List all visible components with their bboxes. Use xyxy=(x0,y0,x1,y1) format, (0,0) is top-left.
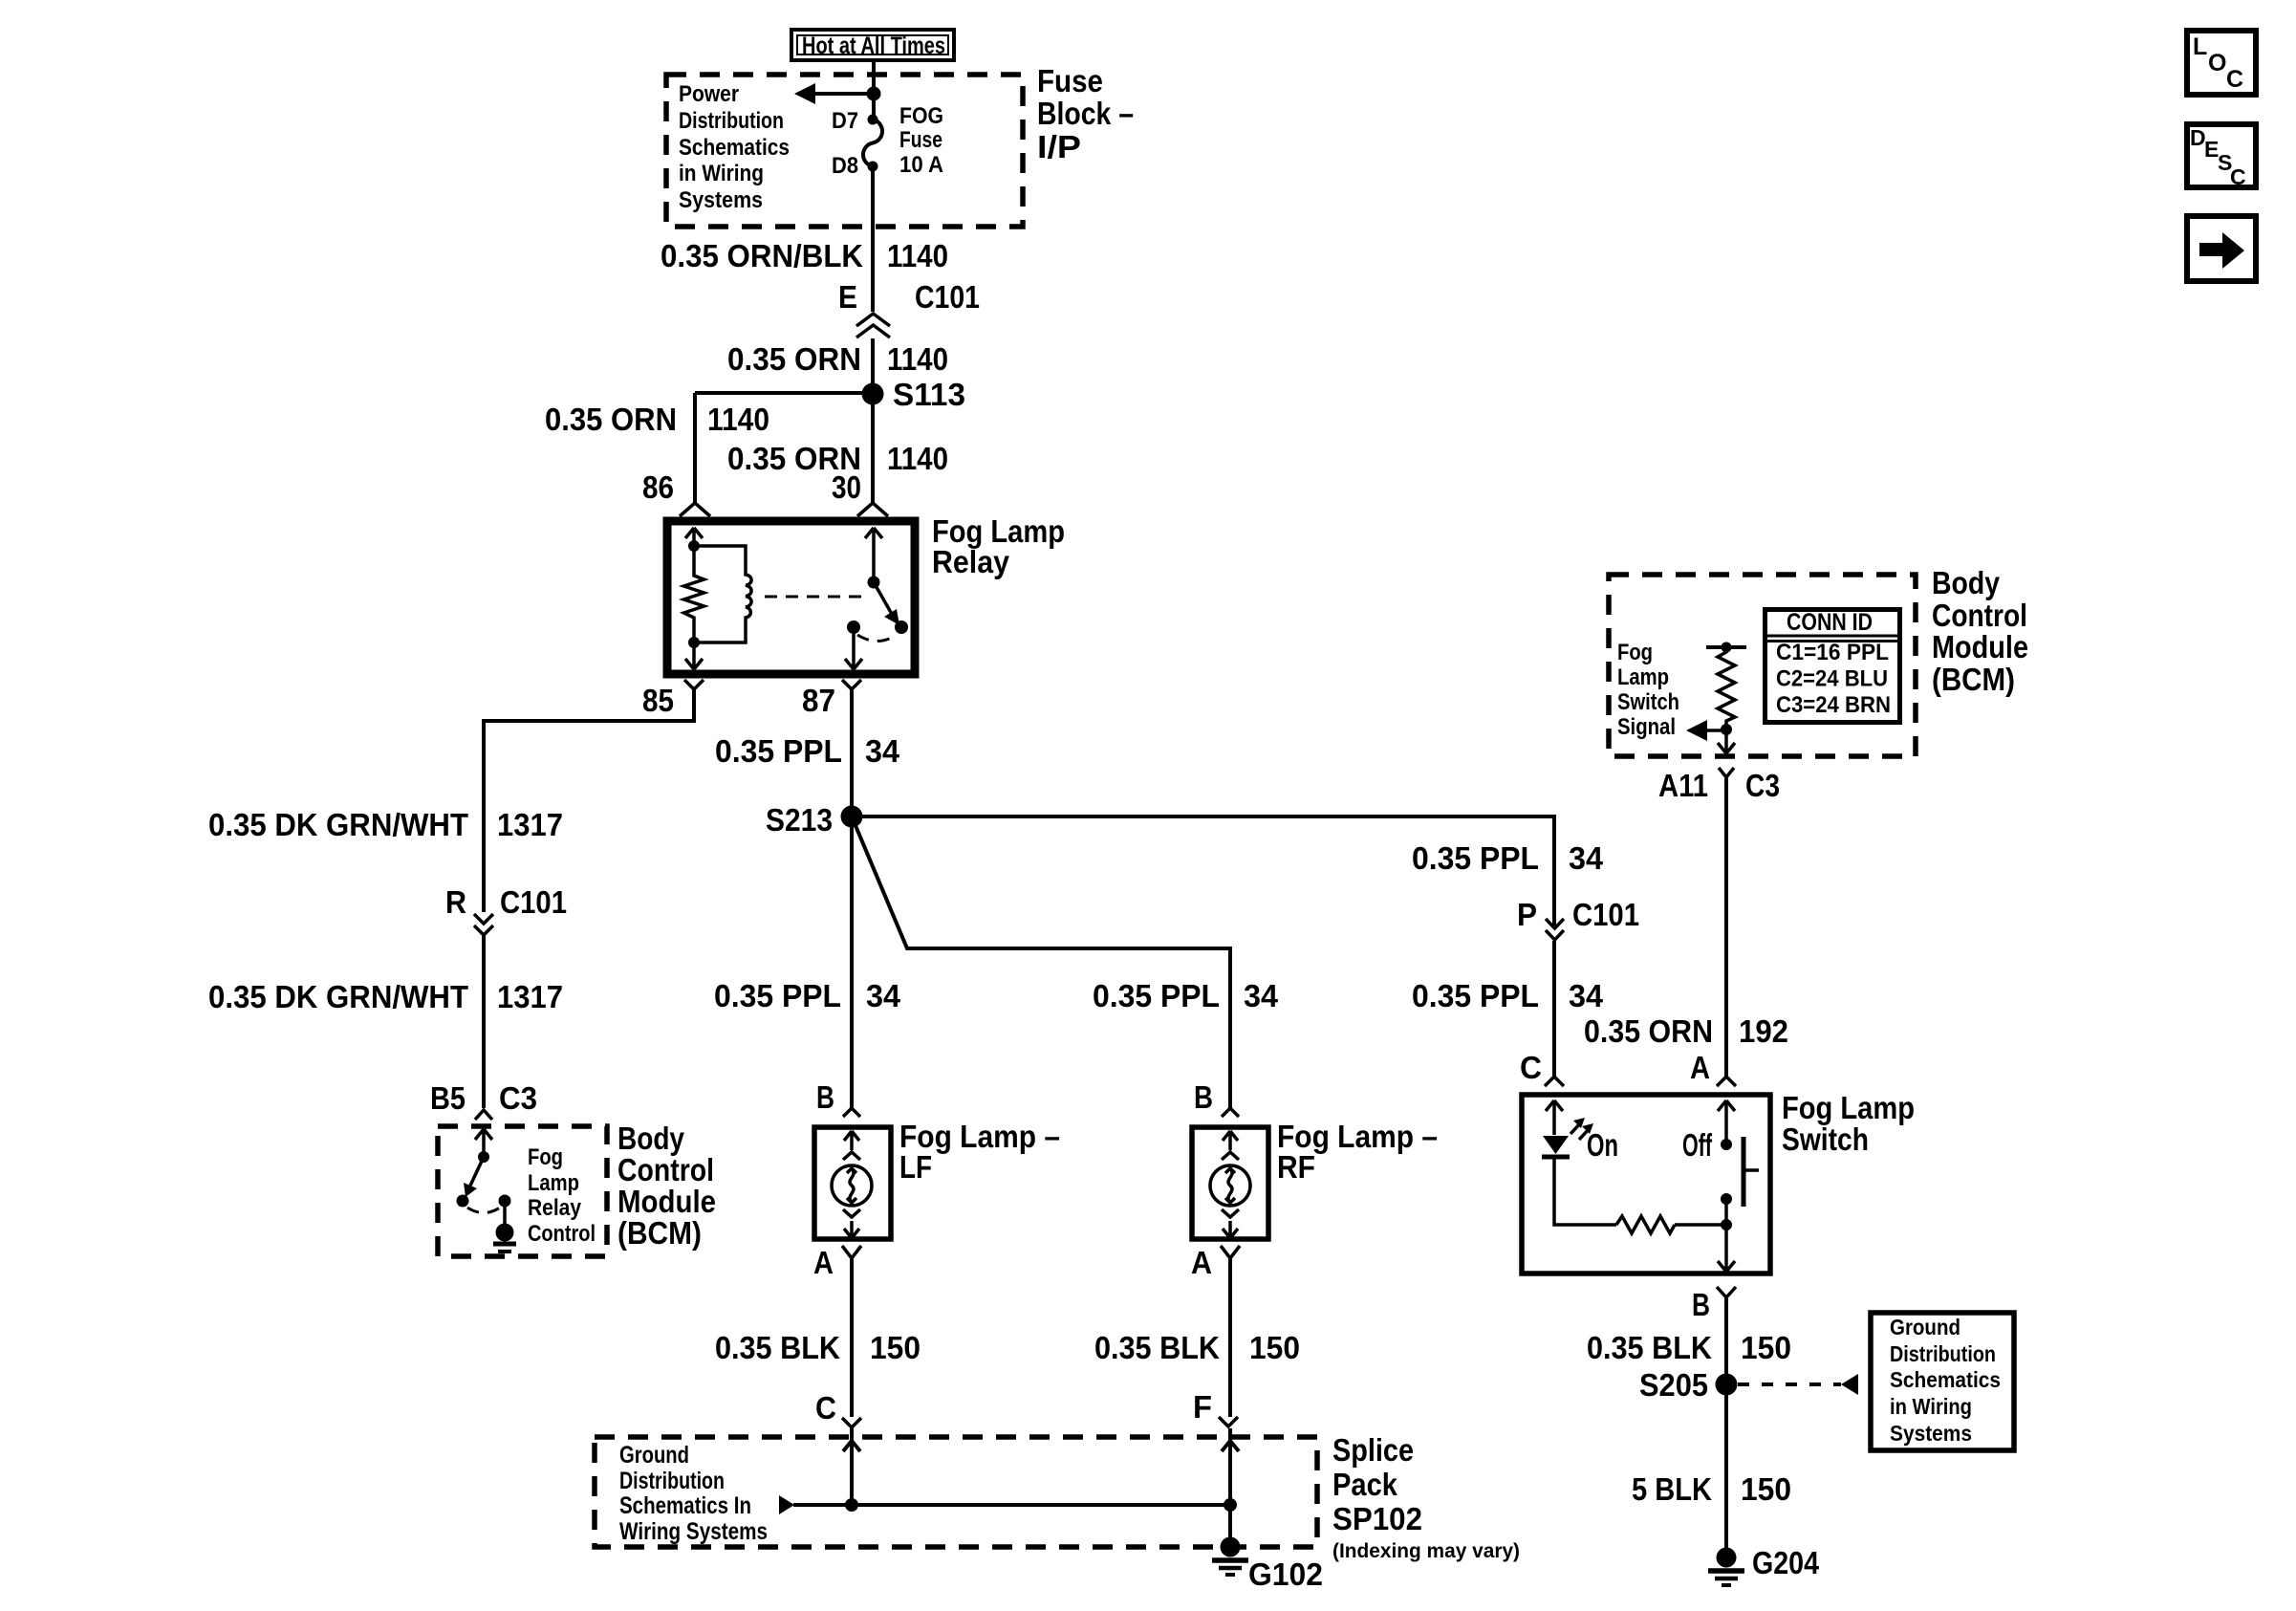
connector C101 double chevron at P xyxy=(1546,919,1564,928)
svg-text:B: B xyxy=(1194,1079,1213,1115)
svg-text:34: 34 xyxy=(1569,840,1604,876)
svg-text:in Wiring: in Wiring xyxy=(679,161,764,186)
svg-text:0.35 PPL: 0.35 PPL xyxy=(715,733,842,769)
arrow to power distribution schematics xyxy=(794,83,815,104)
svg-text:1317: 1317 xyxy=(497,979,563,1014)
svg-text:C3=24 BRN: C3=24 BRN xyxy=(1776,692,1891,718)
svg-text:(Indexing may vary): (Indexing may vary) xyxy=(1332,1540,1520,1562)
svg-text:0.35 BLK: 0.35 BLK xyxy=(1587,1330,1712,1365)
svg-text:Wiring Systems: Wiring Systems xyxy=(619,1518,768,1545)
relay switch movable arm xyxy=(874,582,893,616)
component name Body Control Module (BCM) left xyxy=(617,1121,716,1251)
svg-text:Fog Lamp: Fog Lamp xyxy=(1782,1090,1915,1125)
splice node at C xyxy=(845,1498,858,1512)
svg-text:Fog: Fog xyxy=(528,1144,563,1170)
reference box text Ground Distribution Schematics in Wiring Systems xyxy=(1890,1315,2001,1446)
svg-text:Splice: Splice xyxy=(1332,1432,1414,1468)
svg-text:Control: Control xyxy=(1932,598,2027,633)
wire RF lamp to splice pack pin F xyxy=(1228,1259,1232,1417)
RF lamp internal chevron top xyxy=(1222,1152,1239,1160)
svg-text:Fog: Fog xyxy=(1617,640,1653,665)
svg-text:150: 150 xyxy=(1741,1330,1791,1365)
connector chevron pin 30 xyxy=(857,503,888,516)
svg-text:A: A xyxy=(1690,1050,1710,1085)
svg-text:S113: S113 xyxy=(893,377,965,412)
wire S213 diagonal branch to RF lamp xyxy=(852,816,1230,1108)
svg-text:1317: 1317 xyxy=(497,807,563,842)
relay switch pivot node xyxy=(868,577,880,589)
fuse block note text Power Distribution Schematics in Wiring Systems xyxy=(679,81,790,213)
svg-text:192: 192 xyxy=(1739,1013,1788,1049)
wire connector E to splice S113 xyxy=(871,338,875,386)
svg-text:P: P xyxy=(1517,897,1537,932)
connector chevron pin 86 xyxy=(680,503,710,516)
pin function label Fog Lamp Relay Control xyxy=(528,1144,596,1247)
svg-text:I/P: I/P xyxy=(1037,129,1081,164)
CONN ID table xyxy=(1765,609,1900,723)
svg-text:SP102: SP102 xyxy=(1332,1501,1422,1536)
svg-text:Control: Control xyxy=(528,1221,596,1247)
svg-text:1140: 1140 xyxy=(887,441,948,476)
switch internal entry arrow at A xyxy=(1718,1100,1735,1144)
svg-text:(BCM): (BCM) xyxy=(617,1215,702,1251)
wire from Hot at All Times into fuse block xyxy=(872,60,876,120)
svg-text:C: C xyxy=(2226,66,2243,93)
svg-text:S213: S213 xyxy=(766,802,833,838)
svg-text:F: F xyxy=(1193,1389,1212,1425)
switch internal entry arrow at C xyxy=(1546,1100,1563,1135)
reference arrow at ground distribution box xyxy=(1841,1374,1858,1395)
fuse value label FOG Fuse 10 A xyxy=(899,103,943,178)
svg-text:0.35 PPL: 0.35 PPL xyxy=(714,978,841,1013)
RF lamp internal chevron bottom xyxy=(1222,1209,1239,1217)
fuse terminal D8 xyxy=(868,162,878,172)
svg-text:Fuse: Fuse xyxy=(899,127,942,153)
ground G204 xyxy=(1708,1548,1744,1586)
svg-text:Pack: Pack xyxy=(1332,1467,1398,1502)
internal ground symbol xyxy=(496,1224,514,1242)
pin function label Fog Lamp Switch Signal xyxy=(1617,640,1679,740)
svg-text:Lamp: Lamp xyxy=(1617,664,1669,690)
connector chevron C splice xyxy=(842,1418,861,1427)
svg-text:C3: C3 xyxy=(1745,768,1780,803)
svg-text:34: 34 xyxy=(866,978,901,1013)
switch lower contact node xyxy=(1721,1193,1732,1205)
svg-text:0.35 DK GRN/WHT: 0.35 DK GRN/WHT xyxy=(208,807,468,842)
switch internal resistor xyxy=(1616,1216,1675,1233)
svg-text:Relay: Relay xyxy=(528,1195,582,1221)
wire connector R to BCM pin B5 xyxy=(482,936,486,1108)
body control module dashed box right xyxy=(1609,575,1916,756)
svg-text:Schematics In: Schematics In xyxy=(619,1492,751,1519)
svg-text:34: 34 xyxy=(1569,978,1604,1013)
svg-text:Lamp: Lamp xyxy=(528,1170,579,1196)
switch indicator LED xyxy=(1543,1136,1569,1154)
connector chevron pin 87 xyxy=(842,680,861,689)
svg-text:B: B xyxy=(816,1079,834,1115)
LF bulb circle with filament xyxy=(832,1165,872,1206)
connector chevron pin A11 xyxy=(1719,768,1734,777)
svg-text:Ground: Ground xyxy=(619,1442,689,1469)
svg-text:Hot at All Times: Hot at All Times xyxy=(802,33,945,59)
switch internal wire resistor to node xyxy=(1675,1223,1726,1227)
svg-text:Off: Off xyxy=(1682,1127,1713,1163)
svg-text:10 A: 10 A xyxy=(899,152,943,178)
svg-text:D8: D8 xyxy=(832,153,858,179)
BCM internal pull-up resistor top terminal xyxy=(1706,645,1746,649)
svg-text:G102: G102 xyxy=(1248,1557,1323,1592)
LF lamp internal chevron bottom xyxy=(843,1209,860,1217)
svg-text:1140: 1140 xyxy=(707,402,769,437)
svg-text:CONN ID: CONN ID xyxy=(1787,609,1873,636)
RF lamp internal entry arrow xyxy=(1223,1131,1238,1150)
svg-text:C2=24 BLU: C2=24 BLU xyxy=(1776,666,1888,692)
wire S213 down to LF lamp xyxy=(850,816,854,1108)
svg-text:O: O xyxy=(2208,50,2226,76)
svg-text:Schematics: Schematics xyxy=(679,135,790,161)
wire S113 down to relay pin 30 xyxy=(871,394,875,503)
splice internal arrow to ground distribution xyxy=(779,1495,794,1514)
relay internal arrow down to pin 85 xyxy=(685,642,703,669)
svg-text:0.35 ORN: 0.35 ORN xyxy=(1584,1013,1713,1049)
svg-text:B5: B5 xyxy=(430,1080,466,1116)
svg-text:0.35 BLK: 0.35 BLK xyxy=(1094,1330,1220,1365)
splice node S213 xyxy=(841,806,863,828)
switch internal wire LED to resistor xyxy=(1554,1157,1616,1225)
splice node S205 xyxy=(1716,1374,1738,1396)
corner reference box next arrow xyxy=(2187,216,2256,281)
splice pack SP102 dashed box xyxy=(595,1437,1317,1547)
svg-text:C3: C3 xyxy=(499,1080,537,1116)
svg-text:Distribution: Distribution xyxy=(1890,1341,1996,1366)
switch internal node at resistor xyxy=(1721,1219,1732,1230)
svg-text:C: C xyxy=(815,1390,836,1426)
svg-text:C101: C101 xyxy=(915,279,980,315)
svg-text:34: 34 xyxy=(865,733,900,769)
relay internal resistor xyxy=(684,546,704,642)
splice pack note Ground Distribution Schematics In Wiring Systems xyxy=(619,1442,768,1545)
svg-text:D7: D7 xyxy=(832,108,858,134)
node junction at fuse feed xyxy=(867,87,881,101)
switch Off contact node xyxy=(1721,1139,1732,1150)
svg-text:0.35 ORN/BLK: 0.35 ORN/BLK xyxy=(661,238,863,273)
connector chevron pin 85 xyxy=(684,680,704,689)
connector chevron pin A switch xyxy=(1717,1077,1736,1086)
svg-text:L: L xyxy=(2193,33,2207,60)
component name Splice Pack SP102 xyxy=(1332,1432,1520,1562)
wire branch to power distribution arrow xyxy=(813,92,874,96)
fog lamp RF box xyxy=(1192,1127,1268,1239)
fuse element S-curve xyxy=(863,120,882,166)
fuse block dashed box xyxy=(666,75,1023,227)
relay switch pin 30 internal arrow up and pivot xyxy=(865,528,882,582)
svg-text:5 BLK: 5 BLK xyxy=(1632,1471,1712,1507)
component name Body Control Module (BCM) right xyxy=(1932,565,2028,697)
svg-text:Module: Module xyxy=(617,1184,716,1219)
svg-text:86: 86 xyxy=(642,469,674,505)
svg-text:C: C xyxy=(2230,164,2246,189)
svg-text:30: 30 xyxy=(832,469,861,505)
svg-text:0.35 ORN: 0.35 ORN xyxy=(727,341,861,377)
svg-text:85: 85 xyxy=(642,683,674,718)
svg-text:A: A xyxy=(813,1245,834,1280)
BCM internal node at signal xyxy=(1721,724,1732,735)
svg-text:Fuse: Fuse xyxy=(1037,63,1103,98)
BCM driver contact node right xyxy=(499,1195,511,1208)
LED light arrows xyxy=(1570,1122,1581,1134)
fuse FOG 10A: terminal D7 xyxy=(868,115,878,125)
svg-text:Power: Power xyxy=(679,81,739,107)
wire contact to internal ground xyxy=(503,1201,507,1225)
svg-text:87: 87 xyxy=(802,683,835,718)
relay actuation dashed link xyxy=(765,596,868,599)
connector chevron pin B switch xyxy=(1717,1287,1736,1297)
svg-text:C: C xyxy=(1520,1050,1542,1085)
wire pin 87 down to S213 xyxy=(850,689,854,816)
fog lamp LF box xyxy=(814,1127,891,1239)
svg-text:1140: 1140 xyxy=(887,238,948,273)
svg-text:Control: Control xyxy=(617,1152,714,1187)
wire S213 right branch to connector P xyxy=(852,816,1554,925)
wire pin C into splice bus with up arrow xyxy=(850,1428,854,1505)
connector chevron B RF xyxy=(1222,1108,1239,1117)
relay internal node bottom of coil xyxy=(688,637,700,648)
switch internal wire to exit xyxy=(1724,1199,1728,1254)
connector chevron F splice xyxy=(1219,1417,1238,1426)
svg-text:150: 150 xyxy=(1741,1471,1791,1507)
svg-text:On: On xyxy=(1587,1127,1618,1163)
svg-text:0.35 BLK: 0.35 BLK xyxy=(715,1330,840,1365)
component name Fuse Block - I/P xyxy=(1037,63,1134,164)
fog lamp switch box xyxy=(1522,1095,1770,1274)
BCM driver contact node left xyxy=(457,1195,469,1208)
connector C101 double chevron at E xyxy=(856,314,890,326)
svg-text:Body: Body xyxy=(617,1121,685,1156)
svg-text:Body: Body xyxy=(1932,565,2001,600)
svg-text:Systems: Systems xyxy=(679,187,763,213)
switch blade xyxy=(1742,1137,1746,1207)
BCM internal arrow to fog lamp switch signal xyxy=(1705,729,1726,732)
BCM driver switch arm with arrow xyxy=(470,1157,484,1186)
svg-text:E: E xyxy=(838,279,857,315)
wire pin F into splice bus with up arrow xyxy=(1228,1428,1232,1547)
switch internal exit arrow down xyxy=(1718,1254,1735,1272)
svg-text:S205: S205 xyxy=(1639,1367,1708,1403)
connector chevron pin B5 xyxy=(475,1110,492,1120)
relay box Fog Lamp Relay xyxy=(667,521,915,674)
svg-text:Block –: Block – xyxy=(1037,96,1134,131)
relay switch open contact node xyxy=(895,620,908,634)
BCM internal pull-up resistor xyxy=(1718,647,1735,725)
svg-text:0.35 PPL: 0.35 PPL xyxy=(1412,978,1539,1013)
corner reference box DESC xyxy=(2187,124,2256,189)
svg-text:0.35 PPL: 0.35 PPL xyxy=(1412,840,1539,876)
label box "Hot at All Times" xyxy=(791,30,954,60)
body control module dashed box left xyxy=(438,1126,607,1256)
svg-text:Module: Module xyxy=(1932,629,2028,664)
svg-text:Ground: Ground xyxy=(1890,1315,1960,1339)
svg-text:A11: A11 xyxy=(1658,768,1708,803)
connector C101 double chevron at R xyxy=(474,914,493,924)
connector chevron A LF xyxy=(842,1246,861,1258)
svg-text:G204: G204 xyxy=(1752,1545,1820,1580)
wire fuse D8 down to connector C101 pin E xyxy=(871,166,875,312)
wire BCM A11 down to switch pin A xyxy=(1724,778,1728,1077)
LF lamp internal entry arrow xyxy=(844,1131,859,1150)
svg-text:in Wiring: in Wiring xyxy=(1890,1394,1972,1419)
svg-text:150: 150 xyxy=(870,1330,921,1365)
connector chevron A RF xyxy=(1221,1246,1240,1258)
dashed reference link from S205 xyxy=(1738,1382,1841,1386)
svg-text:Schematics: Schematics xyxy=(1890,1367,2001,1392)
svg-text:Signal: Signal xyxy=(1617,714,1676,740)
BCM driver switch pivot node xyxy=(478,1151,489,1163)
BCM internal entry wire and arrow down xyxy=(475,1129,492,1157)
LF lamp internal chevron top xyxy=(843,1152,860,1160)
relay switch throw contact node on pin 87 xyxy=(847,620,860,634)
RF lamp internal exit arrow xyxy=(1223,1221,1238,1238)
BCM driver travel dashed arc xyxy=(467,1208,500,1213)
svg-text:RF: RF xyxy=(1277,1149,1315,1185)
wire connector P to switch pin C xyxy=(1552,941,1556,1077)
relay coil winding xyxy=(694,546,751,642)
svg-text:Switch: Switch xyxy=(1617,689,1679,715)
corner reference box LOC xyxy=(2187,31,2256,95)
ground distribution reference box xyxy=(1871,1313,2014,1450)
relay coil-side pin 86 internal arrow up xyxy=(685,528,703,547)
svg-text:0.35 PPL: 0.35 PPL xyxy=(1093,978,1220,1013)
wire S113 branch left xyxy=(695,393,873,503)
svg-text:0.35 DK GRN/WHT: 0.35 DK GRN/WHT xyxy=(208,979,468,1014)
svg-text:34: 34 xyxy=(1244,978,1279,1013)
svg-text:150: 150 xyxy=(1249,1330,1300,1365)
splice node at F xyxy=(1224,1498,1237,1512)
wire LF lamp to splice pack pin C xyxy=(850,1259,854,1417)
BCM internal exit arrow down xyxy=(1718,729,1735,753)
svg-text:(BCM): (BCM) xyxy=(1932,662,2015,697)
svg-text:Switch: Switch xyxy=(1782,1121,1869,1157)
svg-text:Distribution: Distribution xyxy=(679,108,784,134)
svg-text:Distribution: Distribution xyxy=(619,1468,725,1494)
wire switch B down to G204 xyxy=(1724,1298,1728,1549)
relay internal arrow down to pin 87 xyxy=(845,627,862,669)
svg-text:C101: C101 xyxy=(500,884,567,920)
svg-text:1140: 1140 xyxy=(887,341,948,377)
connector chevron B LF xyxy=(843,1108,860,1117)
svg-text:LF: LF xyxy=(899,1149,932,1185)
svg-text:Systems: Systems xyxy=(1890,1421,1972,1446)
svg-text:Relay: Relay xyxy=(932,544,1010,579)
splice node S113 xyxy=(862,383,884,405)
wire pin 85 to left branch xyxy=(484,689,694,912)
svg-text:C101: C101 xyxy=(1572,897,1639,932)
connector chevron pin C switch xyxy=(1545,1077,1564,1086)
relay switch travel dashed arc xyxy=(857,635,897,642)
svg-text:A: A xyxy=(1191,1245,1212,1280)
svg-text:0.35 ORN: 0.35 ORN xyxy=(545,402,677,437)
svg-text:R: R xyxy=(445,884,466,920)
svg-text:C1=16 PPL: C1=16 PPL xyxy=(1776,640,1889,665)
RF bulb circle with filament xyxy=(1210,1165,1250,1206)
ground G102 xyxy=(1212,1537,1248,1576)
relay internal node top of coil xyxy=(688,540,700,552)
LF lamp internal exit arrow xyxy=(844,1221,859,1238)
svg-text:B: B xyxy=(1692,1287,1710,1322)
splice internal bus wire xyxy=(793,1503,1230,1507)
svg-text:FOG: FOG xyxy=(899,103,943,129)
